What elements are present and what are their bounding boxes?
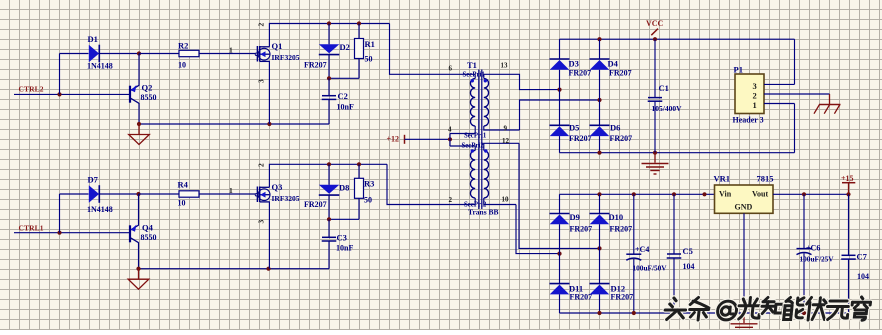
svg-text:C2: C2 [338,91,348,101]
wire ground rail ch1 [136,267,329,271]
svg-text:Q1: Q1 [272,41,283,51]
wire P1 pin1 to bridge rail [764,104,795,153]
wire +12 tap connector [449,134,451,147]
svg-text:13: 13 [501,62,509,70]
transformer T1 pin numbers [448,62,510,205]
svg-text:Trans BB: Trans BB [468,208,499,217]
wire VR1 output [773,192,851,196]
svg-text:8550: 8550 [141,233,157,242]
diode D10 [590,194,633,248]
resistor R3 [355,164,375,219]
svg-text:FR207: FR207 [569,68,592,77]
ground ch2 [129,124,150,145]
watermark toutiao logo text [664,297,871,320]
svg-text:IRF3205: IRF3205 [272,53,300,62]
wire ground rail ch2 [137,122,329,126]
svg-text:8550: 8550 [141,93,157,102]
svg-text:100uF/25V: 100uF/25V [800,254,835,263]
transformer T1 phase dots [471,79,488,153]
wire D7 cathode to node [99,192,140,196]
resistor R1 [355,24,375,79]
wire pin10 to D9 node [516,205,562,256]
wire D8-R3 junction [327,217,359,221]
svg-text:D4: D4 [608,59,619,69]
resistor R2 [139,41,199,70]
wire bridge bottom rail to P1 pin1 [560,151,795,155]
svg-text:FR207: FR207 [610,224,633,233]
wire P1 pin2 to chassis ground [764,94,830,105]
wire CTRL1 net [14,231,130,235]
svg-text:1N4148: 1N4148 [87,62,113,71]
svg-text:VR1: VR1 [714,173,731,183]
svg-text:6: 6 [449,65,453,73]
regulator VR1 [714,173,774,213]
svg-text:SecPri1: SecPri1 [463,72,486,79]
wire node to Q4 emitter [138,194,140,225]
svg-text:FR207: FR207 [610,134,633,143]
power port VCC [646,19,664,35]
svg-text:P1: P1 [734,65,743,75]
connector P1 [733,65,765,125]
wire node to Q2 emitter [138,54,140,86]
node CTRL2 label [19,85,44,94]
wire CTRL2 net [14,92,130,96]
svg-text:10nF: 10nF [337,103,354,112]
svg-text:9: 9 [504,125,508,133]
transformer T1 secondary top winding [484,74,520,130]
transformer T1 primary bottom winding [450,146,475,205]
svg-text:FR207: FR207 [569,134,592,143]
svg-text:CTRL1: CTRL1 [19,224,44,233]
svg-text:SecPri2: SecPri2 [462,143,485,150]
diode D12 [590,248,634,313]
svg-text:+C6: +C6 [806,244,820,253]
svg-text:D8: D8 [339,183,349,193]
svg-text:3: 3 [753,81,757,91]
svg-text:FR207: FR207 [304,61,327,70]
capacitor C3 [322,219,354,268]
wire Q4 collector to ground rail [138,243,140,269]
svg-text:4: 4 [448,126,452,134]
wire P1 pin3 to VCC rail [764,39,795,84]
wire rectifier output rail [560,192,715,196]
svg-text:10: 10 [178,61,186,70]
svg-text:GND: GND [735,202,753,211]
svg-text:D7: D7 [88,175,99,185]
diode D4 [590,39,632,100]
svg-text:FR207: FR207 [570,224,593,233]
svg-text:3: 3 [257,220,266,224]
wire ground rail bottom [560,311,849,315]
svg-text:D10: D10 [609,212,624,222]
svg-text:FR207: FR207 [304,200,327,209]
transformer T1 labels [462,60,499,217]
wire Q1 drain rail [268,61,270,124]
svg-text:+15: +15 [841,174,854,183]
capacitor C6 [797,194,835,313]
wire Q3 source to ground rail [268,201,270,268]
svg-text:SecPri2: SecPri2 [464,202,487,209]
svg-text:R2: R2 [178,41,188,51]
svg-text:104: 104 [683,262,695,271]
capacitor C7 [841,194,869,313]
svg-text:D9: D9 [570,212,580,222]
wire VR1 GND to ground rail [742,213,746,315]
diode D3 [550,39,592,89]
svg-text:R3: R3 [364,179,374,189]
svg-text:Q4: Q4 [142,223,154,233]
ground under C1 [642,153,669,174]
resistor R4 [139,180,200,208]
svg-text:Q2: Q2 [142,83,153,93]
diode D9 [550,194,593,253]
capacitor C5 [667,194,695,313]
svg-text:C3: C3 [337,233,347,243]
svg-text:1: 1 [229,46,233,55]
capacitor C2 [322,78,354,124]
svg-text:IRF3205: IRF3205 [272,194,300,203]
svg-text:C1: C1 [659,83,669,93]
wire VCC top rail [560,37,795,41]
svg-text:D1: D1 [88,34,98,44]
wire CTRL2 to D1 anode [60,54,89,95]
diode D2 [304,24,350,79]
ground ch1 [128,269,149,290]
diode D6 [590,100,633,153]
svg-text:D6: D6 [610,123,620,133]
transistor Q4 [130,223,157,243]
diode D7 [87,175,113,215]
svg-text:FR207: FR207 [611,292,634,301]
capacitor C4 [626,194,667,313]
transistor Q2 [130,83,157,104]
svg-text:D2: D2 [340,42,350,52]
svg-text:1N4148: 1N4148 [87,205,113,214]
svg-text:7815: 7815 [757,173,774,183]
svg-text:D5: D5 [569,123,579,133]
svg-text:50: 50 [364,196,372,205]
transformer T1 secondary bottom winding [484,143,519,204]
svg-text:Q3: Q3 [272,182,283,192]
wire pin13 to D3 node [484,74,562,91]
diode D11 [550,254,593,313]
power port +12 [387,135,405,144]
svg-text:R4: R4 [178,180,189,190]
svg-text:D3: D3 [569,59,579,69]
svg-text:1: 1 [229,186,233,195]
svg-text:R1: R1 [365,39,375,49]
svg-text:10: 10 [178,199,186,208]
wire pin9 to D4 node [520,98,602,130]
svg-text:100uF/50V: 100uF/50V [633,264,668,273]
diode D5 [550,90,592,153]
svg-text:FR207: FR207 [570,292,593,301]
diode D8 [304,164,349,219]
svg-text:+C4: +C4 [635,245,649,254]
svg-text:1: 1 [753,100,757,110]
svg-text:2: 2 [753,91,757,101]
svg-text:2: 2 [257,23,266,27]
svg-text:Vout: Vout [752,189,768,198]
svg-text:2: 2 [257,163,266,167]
diode D1 [87,34,113,71]
transistor Q3 [255,163,300,224]
transformer T1 core [479,70,482,210]
svg-text:3: 3 [257,79,266,83]
svg-text:104: 104 [857,272,869,281]
svg-text:10nF: 10nF [336,244,353,253]
wire D2-R1 junction [327,76,359,80]
wire D1 cathode to node [99,51,141,55]
wire pin12 to D10 node [519,143,602,250]
wire R2 to Q1 gate [199,46,256,55]
transistor Q1 [255,23,300,84]
wire Q1 drain to transformer pin6 [269,21,475,74]
wire Q2 collector to ground rail [138,103,140,124]
svg-text:Header 3: Header 3 [733,116,764,125]
svg-text:Vin: Vin [719,189,732,198]
svg-text:50: 50 [365,55,373,64]
svg-text:C5: C5 [683,246,693,256]
svg-text:SecPri1: SecPri1 [464,132,487,139]
wire R4 to Q3 gate [199,186,256,195]
svg-text:+12: +12 [387,135,400,144]
wire +12 to transformer [405,137,453,141]
svg-text:105/400V: 105/400V [652,104,683,113]
svg-text:C7: C7 [857,251,868,261]
capacitor C1 [648,39,682,153]
transformer T1 primary top winding [450,74,475,133]
power port +15 [841,174,855,194]
svg-text:10: 10 [502,196,510,204]
ground under VR1 [731,313,758,334]
wire CTRL1 to D7 anode [60,194,89,233]
svg-text:CTRL2: CTRL2 [19,85,44,94]
svg-text:2: 2 [449,196,453,204]
svg-text:VCC: VCC [646,19,664,28]
chassis ground [814,105,841,114]
svg-text:T1: T1 [467,60,477,70]
node CTRL1 label [19,224,44,233]
svg-text:12: 12 [502,137,510,145]
wire Q3 drain to transformer pin2 [269,162,475,204]
svg-text:FR207: FR207 [609,68,632,77]
